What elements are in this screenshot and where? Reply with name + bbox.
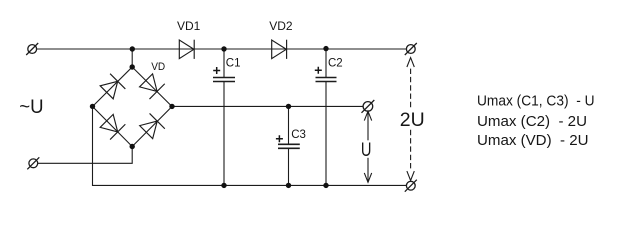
wire C1 branch: [223, 49, 225, 185]
terminal input top-left: [26, 43, 38, 55]
svg-text:U: U: [361, 139, 372, 161]
capacitor C1 plus sign: [213, 67, 220, 74]
bridge diode bottom-left (left node to bottom node): [99, 113, 125, 139]
capacitor C2 plates: [316, 78, 337, 82]
U measurement arrow (solid, double-headed): [364, 111, 371, 182]
node C3 top on middle rail: [286, 104, 291, 109]
bridge diode top-left (left node to top node): [99, 74, 125, 100]
node bridge left: [90, 104, 95, 109]
capacitor C1 plates: [213, 78, 235, 82]
bridge diode VD top-right (top node to right node): [138, 73, 164, 99]
svg-text:VD1: VD1: [177, 19, 201, 33]
terminal output middle (U): [362, 100, 375, 113]
svg-text:VD2: VD2: [269, 19, 293, 33]
svg-text:Umax (C1, C3) - U: Umax (C1, C3) - U: [477, 93, 595, 110]
wire bottom rail with left leg: [93, 106, 407, 185]
svg-text:~U: ~U: [19, 96, 43, 118]
svg-text:VD: VD: [151, 61, 165, 73]
wire top rail: [37, 48, 407, 50]
bridge diamond wires: [93, 67, 173, 147]
wire middle (+U) rail: [172, 105, 363, 107]
junction node dots: [90, 46, 329, 188]
2U measurement arrow (dashed, double-headed): [407, 58, 414, 181]
svg-text:2U: 2U: [400, 109, 425, 131]
node bridge bottom: [130, 144, 135, 149]
node C3 bottom: [286, 183, 291, 188]
node C1 bottom: [221, 183, 226, 188]
capacitor C2 plus sign: [315, 67, 322, 74]
svg-text:C3: C3: [291, 129, 306, 141]
diode VD2: [272, 40, 287, 59]
svg-text:Umax (C2) - 2U: Umax (C2) - 2U: [477, 113, 587, 130]
terminal output top-right (2U): [405, 43, 417, 55]
node C2 top: [323, 46, 328, 51]
wire C3 branch: [288, 106, 290, 185]
wire C2 branch: [325, 49, 327, 185]
capacitor C3 plus sign: [276, 135, 283, 142]
capacitor C3 plates: [278, 144, 300, 148]
bridge diode bottom-right (bottom node to right node): [139, 113, 165, 139]
terminal output bottom-right: [405, 180, 417, 192]
node C1 top: [221, 46, 226, 51]
wire terminal2 to bridge bottom stub: [38, 147, 133, 164]
terminal input bottom-left: [27, 157, 39, 169]
node top stub on top rail: [130, 46, 135, 51]
wire bridge top stub: [131, 49, 133, 67]
svg-text:C1: C1: [226, 58, 241, 70]
node C2 bottom: [323, 183, 328, 188]
svg-text:Umax (VD) - 2U: Umax (VD) - 2U: [477, 132, 589, 149]
svg-text:C2: C2: [328, 58, 343, 70]
node bridge top: [130, 64, 135, 69]
node bridge right: [169, 104, 174, 109]
diode VD1: [179, 40, 194, 59]
